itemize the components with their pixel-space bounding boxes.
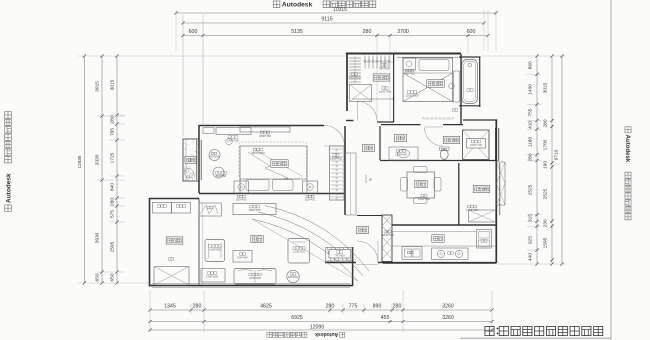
svg-text:840: 840 <box>110 183 116 191</box>
svg-text:12090: 12090 <box>310 325 325 331</box>
svg-text:1595: 1595 <box>543 237 549 248</box>
svg-text:Autodesk: Autodesk <box>315 331 338 337</box>
svg-text:1800*450: 1800*450 <box>249 208 261 212</box>
svg-text:455: 455 <box>381 315 390 321</box>
svg-text:1800*450: 1800*450 <box>259 134 271 138</box>
svg-text:1200*2000: 1200*2000 <box>405 93 419 97</box>
svg-text:3330: 3330 <box>95 154 101 165</box>
svg-text:2130*900: 2130*900 <box>249 276 261 280</box>
svg-text:PL40 03 03 05 05 0SLP: PL40 03 03 05 05 0SLP <box>422 117 454 121</box>
svg-text:10315: 10315 <box>333 7 347 13</box>
svg-text:230: 230 <box>543 219 549 227</box>
svg-text:280: 280 <box>363 29 372 35</box>
svg-text:500*400: 500*400 <box>404 72 415 76</box>
svg-text:1340*600: 1340*600 <box>206 274 218 278</box>
svg-text:600: 600 <box>467 29 476 35</box>
svg-text:440: 440 <box>528 253 534 261</box>
svg-text:1100*900: 1100*900 <box>293 249 305 253</box>
svg-text:3930: 3930 <box>95 232 101 243</box>
svg-text:925: 925 <box>528 236 534 244</box>
svg-text:550*400: 550*400 <box>236 198 247 202</box>
svg-text:280: 280 <box>393 304 402 310</box>
svg-text:315: 315 <box>528 214 534 222</box>
svg-text:Autodesk: Autodesk <box>5 173 12 203</box>
svg-text:11935: 11935 <box>77 155 83 168</box>
svg-text:740*400: 740*400 <box>334 253 345 257</box>
svg-text:5135: 5135 <box>291 29 303 35</box>
svg-text:1400: 1400 <box>528 84 534 95</box>
svg-text:575: 575 <box>110 210 116 218</box>
svg-text:2525: 2525 <box>543 188 549 199</box>
svg-text:2595: 2595 <box>110 241 116 252</box>
svg-text:900*400: 900*400 <box>237 255 248 259</box>
svg-text:890: 890 <box>373 304 382 310</box>
svg-text:650: 650 <box>110 273 116 281</box>
svg-text:3700: 3700 <box>397 29 409 35</box>
svg-text:1400*400: 1400*400 <box>349 75 361 79</box>
svg-text:280: 280 <box>543 119 549 127</box>
svg-text:600: 600 <box>189 29 198 35</box>
svg-text:775: 775 <box>349 304 358 310</box>
svg-text:600*600: 600*600 <box>288 275 299 279</box>
svg-text:1130*400: 1130*400 <box>395 152 407 156</box>
svg-text:1725: 1725 <box>110 152 116 163</box>
svg-text:500*500: 500*500 <box>209 155 220 159</box>
svg-text:4625: 4625 <box>260 304 272 310</box>
svg-text:1500*600: 1500*600 <box>330 156 342 160</box>
svg-text:3260: 3260 <box>442 315 454 321</box>
svg-text:700*500: 700*500 <box>379 66 390 70</box>
svg-text:1000*400: 1000*400 <box>379 89 391 93</box>
svg-text:410: 410 <box>528 121 534 129</box>
svg-text:1100*900: 1100*900 <box>209 247 221 251</box>
svg-text:1800*2000: 1800*2000 <box>251 151 265 155</box>
svg-text:850*850: 850*850 <box>216 174 227 178</box>
svg-text:550*400: 550*400 <box>305 198 316 202</box>
svg-text:2525: 2525 <box>528 184 534 195</box>
svg-text:280: 280 <box>110 198 116 206</box>
svg-text:3260: 3260 <box>442 304 454 310</box>
svg-text:280: 280 <box>110 115 116 123</box>
svg-text:1500*800: 1500*800 <box>418 197 430 201</box>
svg-text:9710: 9710 <box>554 149 560 160</box>
svg-text:280: 280 <box>193 304 202 310</box>
svg-text:1180: 1180 <box>528 137 534 148</box>
svg-text:860: 860 <box>528 61 534 69</box>
svg-text:755: 755 <box>528 108 534 116</box>
svg-text:3015: 3015 <box>543 82 549 93</box>
svg-text:Autodesk: Autodesk <box>624 135 630 163</box>
svg-text:Autodesk: Autodesk <box>282 2 313 9</box>
svg-text:190: 190 <box>543 161 549 169</box>
svg-text:1640*700: 1640*700 <box>382 233 394 237</box>
svg-text:765: 765 <box>110 128 116 136</box>
svg-text:650: 650 <box>95 273 101 281</box>
svg-text:1345: 1345 <box>164 304 176 310</box>
svg-text:1000*700: 1000*700 <box>470 143 482 147</box>
svg-text:1700: 1700 <box>543 139 549 150</box>
svg-text:1400*500: 1400*500 <box>227 139 239 143</box>
svg-text:IP: IP <box>369 178 372 182</box>
svg-text:3015: 3015 <box>95 81 101 92</box>
svg-text:9115: 9115 <box>321 17 332 23</box>
svg-text:3015: 3015 <box>110 79 116 90</box>
svg-text:6925: 6925 <box>291 315 303 321</box>
